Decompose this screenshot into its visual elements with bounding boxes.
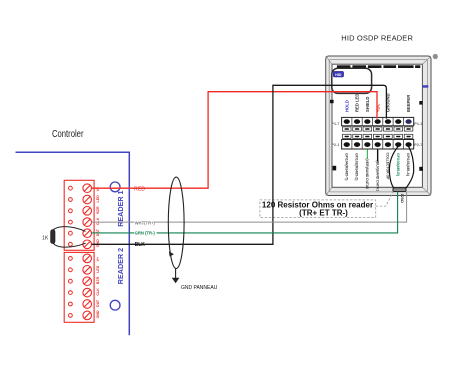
svg-text:(VER)SAND DATA0: (VER)SAND DATA0 xyxy=(365,159,369,190)
svg-text:HOLD: HOLD xyxy=(344,100,349,112)
svg-text:SHIELD: SHIELD xyxy=(365,97,370,112)
svg-text:V+: V+ xyxy=(96,257,100,262)
svg-text:(BLN)SAND DATA1: (BLN)SAND DATA1 xyxy=(375,161,379,192)
svg-text:P2-1: P2-1 xyxy=(332,143,340,147)
svg-text:LED: LED xyxy=(96,265,100,273)
svg-text:CLK: CLK xyxy=(96,217,100,225)
svg-text:GND PANNEAU: GND PANNEAU xyxy=(181,285,218,291)
svg-text:GRN (TR-): GRN (TR-) xyxy=(135,231,156,236)
svg-text:READER 2: READER 2 xyxy=(116,248,125,284)
svg-text:BZR: BZR xyxy=(96,276,100,284)
svg-text:LED: LED xyxy=(96,195,100,203)
svg-text:CLK: CLK xyxy=(96,288,100,296)
svg-text:HID OSDP READER: HID OSDP READER xyxy=(341,33,413,42)
svg-text:HID: HID xyxy=(335,73,342,77)
svg-text:WHT(TR+): WHT(TR+) xyxy=(135,220,156,225)
svg-text:BZR: BZR xyxy=(96,206,100,214)
svg-text:P2-7: P2-7 xyxy=(414,143,422,147)
svg-text:GP/102(RS485-Z): GP/102(RS485-Z) xyxy=(355,153,359,180)
svg-text:GP/104(RS485-T): GP/104(RS485-T) xyxy=(344,153,348,180)
svg-text:COLLECTOR OP: COLLECTOR OP xyxy=(386,153,390,181)
svg-text:GP/103(485-B): GP/103(485-B) xyxy=(396,153,400,176)
svg-text:V+: V+ xyxy=(96,187,100,192)
svg-text:BLK: BLK xyxy=(135,242,146,248)
svg-text:Controler: Controler xyxy=(52,129,84,140)
svg-text:P1-1: P1-1 xyxy=(414,122,422,126)
svg-text:+DC: +DC xyxy=(375,104,380,113)
svg-text:(TR+ ET TR-): (TR+ ET TR-) xyxy=(299,208,348,217)
svg-text:1K: 1K xyxy=(42,235,49,241)
svg-text:GP/101(485-A): GP/101(485-A) xyxy=(406,153,410,176)
svg-text:RED LED: RED LED xyxy=(355,94,360,112)
svg-text:DAT: DAT xyxy=(96,228,100,236)
svg-text:READER 1: READER 1 xyxy=(116,190,125,226)
svg-text:P1-7: P1-7 xyxy=(332,122,340,126)
svg-text:120Ω: 120Ω xyxy=(400,194,404,203)
svg-text:DAT: DAT xyxy=(96,299,100,307)
svg-text:GND: GND xyxy=(96,239,100,247)
svg-text:BEEPER: BEEPER xyxy=(406,95,411,112)
svg-text:GND: GND xyxy=(96,310,100,318)
svg-text:RED: RED xyxy=(134,186,145,192)
